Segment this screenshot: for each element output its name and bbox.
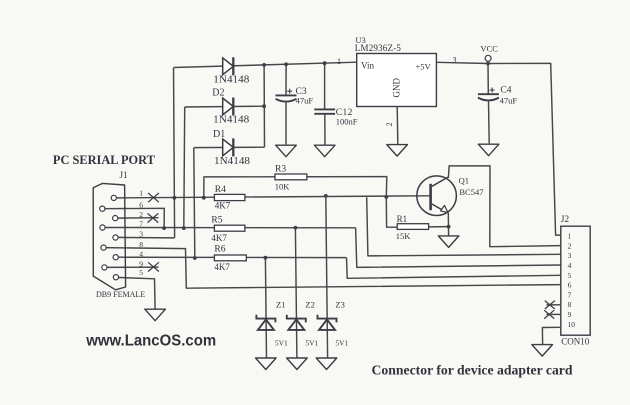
svg-text:6: 6 [139,201,143,210]
svg-text:7: 7 [139,220,143,229]
ground below U3 GND [387,145,408,157]
J1 pin holes [100,195,119,280]
svg-text:LM2936Z-5: LM2936Z-5 [355,43,402,53]
svg-text:VCC: VCC [480,43,498,53]
svg-text:4: 4 [139,249,143,258]
svg-text:1: 1 [568,232,572,241]
wire R5 row (DB9 pin7 to jog) [103,227,356,229]
svg-text:Z1: Z1 [276,299,285,309]
resistor R6 4K7 body [214,255,246,261]
zener diode Z2 5V1 [287,315,306,330]
connector J2 body [561,226,590,335]
svg-text:R6: R6 [214,244,225,254]
ground below Z1 [256,358,277,370]
svg-text:7: 7 [568,290,572,299]
svg-text:CON10: CON10 [561,336,590,346]
junction dot D2 cathode bus [262,104,266,108]
capacitor C12 100nF [314,109,335,113]
svg-text:100nF: 100nF [336,117,358,127]
svg-text:5: 5 [139,268,143,277]
junction dot pin7/D2 branch [182,226,186,230]
svg-text:DB9 FEMALE: DB9 FEMALE [96,290,145,299]
svg-text:5V1: 5V1 [305,338,318,347]
svg-text:3: 3 [139,230,143,239]
wire R5 net jog down to J2 pin 4 [356,228,561,268]
ground below DB9 [145,309,166,321]
svg-text:1N4148: 1N4148 [213,75,249,86]
ground below Z2 [287,358,308,370]
svg-text:4K7: 4K7 [215,201,231,211]
ground below C3 [276,145,297,157]
transistor Q1 base bar [429,184,432,210]
no-connect X on DB9 pin 9 [148,262,159,271]
capacitor C4 47uF [478,94,499,100]
wire vertical from D3 anode down to pin-6 net [174,68,175,238]
svg-text:4K7: 4K7 [211,233,227,243]
wire U3 +5V output to VCC node [436,62,488,63]
wire DB9 pin 9 stub [107,266,159,268]
wire DB9 pin 2 stub [115,217,159,219]
svg-text:10: 10 [568,320,576,329]
svg-text:D1: D1 [213,129,225,140]
ground below C12 [314,145,335,157]
svg-text:8: 8 [139,240,143,249]
svg-text:PC SERIAL PORT: PC SERIAL PORT [53,152,155,167]
capacitor C3 47uF [276,95,297,101]
wire U3 GND pin to ground [396,107,399,144]
no-connect X on DB9 pin 2 [148,213,159,222]
zener diode Z3 5V1 [318,315,337,330]
wire R1 right to emitter node [429,226,449,228]
svg-text:6: 6 [568,281,572,290]
junction dot emitter/R1 [447,225,451,229]
J2 pin 8 stub with X [547,304,562,306]
junction dot C12 tap [323,61,327,65]
resistor R5 4K7 body [214,225,245,231]
svg-text:9: 9 [568,310,572,319]
wire vertical from D2 anode down to pin-7 net [183,107,186,228]
wire VCC node to J2 pin1 (down right side) [488,63,561,235]
diode D1 (1N4148) [223,138,234,156]
wire R6 net jog down to J2 pin 5 [347,258,562,279]
junction dot R5 row / Z2 branch [294,226,298,230]
junction dot VCC node [486,62,490,66]
wire J2 pin 10 to ground [542,327,561,344]
transistor Q1 collector diagonal [432,177,449,186]
svg-text:4K7: 4K7 [214,262,230,272]
wire C3 branch lower [285,103,287,145]
wire Z2 branch [295,228,297,358]
wire D2 row [185,105,264,108]
J2 pin numbers 1-10 [568,232,576,329]
ground below J2 pin 10 [532,345,553,357]
resistor R4 4K7 body [214,194,245,200]
svg-text:8: 8 [568,300,572,309]
svg-text:3: 3 [568,251,572,260]
svg-text:R5: R5 [211,216,222,226]
wire C12 branch upper [324,63,326,109]
wire vertical from D1 anode down to R6 net [194,148,195,258]
wire base row branch to J2 pin 3 [367,197,561,256]
svg-text:R3: R3 [275,164,286,174]
svg-text:1N4148: 1N4148 [213,114,249,125]
resistor R3 10K body [275,174,307,180]
resistor R1 15K body [397,224,428,230]
svg-text:5V1: 5V1 [275,338,288,347]
wire Z3 branch [326,196,328,358]
diode D2 (1N4148) [223,98,234,116]
junction dot R6 row / D1 branch [193,256,197,260]
svg-text:R1: R1 [397,214,408,224]
wire DB9 pin 5 to ground [116,277,155,308]
junction dot R6 row / Z1 branch [264,256,268,260]
VCC terminal circle [485,55,491,61]
junction dot base row / Z3 branch [324,194,328,198]
transistor Q1 emitter diagonal with arrow [432,204,448,212]
wire DB9 pin 6 to pin-7 net jog [103,208,165,228]
svg-text:5V1: 5V1 [335,338,348,347]
junction dot C3 tap [284,62,288,66]
svg-text:10K: 10K [275,182,291,192]
J2 pin 9 stub with X [547,313,562,315]
wire D1 row [194,146,265,148]
junction dot base row / diode bus [173,196,177,200]
connector J1 DB9 shell [93,183,125,289]
svg-text:15K: 15K [396,231,412,241]
svg-text:2: 2 [139,210,143,219]
svg-text:BC547: BC547 [459,187,483,197]
voltage regulator U3 LM2936Z-5 body [357,54,437,107]
svg-text:R4: R4 [215,185,226,195]
wire C3 branch upper [285,64,287,95]
svg-text:Z3: Z3 [335,299,344,309]
junction dot base row / R3 branch left [202,196,206,200]
wire top diode D3 row (anode bus to U3 Vin) [174,62,357,67]
wire cathode bus vertical joining D1,D2,D3 [263,65,265,147]
wire R1 branch from base node [386,197,397,227]
svg-text:J1: J1 [120,170,128,180]
svg-text:+5V: +5V [416,62,432,72]
wire DB9 pin 8 to J2 pin 6 [104,248,562,289]
ground below Z3 [316,358,337,370]
svg-text:1: 1 [139,189,143,198]
ground below C4 [478,144,499,156]
svg-text:2: 2 [385,122,394,126]
no-connect X on DB9 pin 1 [148,193,159,202]
transistor Q1 BC547 circle [417,176,457,216]
svg-text:4: 4 [568,261,572,270]
wire Z1 branch [265,258,266,358]
svg-text:Vin: Vin [361,61,374,71]
svg-text:Q1: Q1 [459,176,469,186]
svg-text:1: 1 [337,57,341,66]
junction dot D3 cathode bus [262,63,266,67]
wire DB9 pin 3 to diode bus foot [118,236,175,239]
wire C4 branch lower [488,101,491,143]
svg-text:2: 2 [568,241,572,250]
svg-text:C4: C4 [500,85,511,95]
svg-text:Connector for device adapter c: Connector for device adapter card [372,364,573,379]
svg-text:Z2: Z2 [305,299,314,309]
diode D3 (top, 1N4148) [223,57,234,75]
svg-text:J2: J2 [561,215,570,225]
wire Q1 emitter down [447,213,449,236]
wire R3 branch (up-over-down) [204,177,387,198]
junction dot pin7/pin6 join [162,226,166,230]
svg-text:D2: D2 [212,87,224,98]
junction dot base row / R3-R1 node [384,195,388,199]
zener diode Z1 5V1 [256,315,275,330]
wire base row (DB9 pin1 via R4 to Q1 base) [114,196,430,198]
wire R6 row (DB9 pin 4) [116,256,347,258]
svg-text:www.LancOS.com: www.LancOS.com [85,333,216,350]
svg-text:1N4148: 1N4148 [214,156,250,167]
wire C12 branch lower [324,114,326,145]
J1 pin numbers [139,189,143,277]
svg-text:47uF: 47uF [296,96,314,106]
svg-text:47uF: 47uF [500,95,518,105]
wire Q1 collector to J2 pin 2 [448,166,561,247]
wire C4 branch upper [487,64,489,95]
svg-text:GND: GND [392,78,402,98]
svg-text:5: 5 [568,271,572,280]
ground below Q1 emitter [438,236,459,248]
